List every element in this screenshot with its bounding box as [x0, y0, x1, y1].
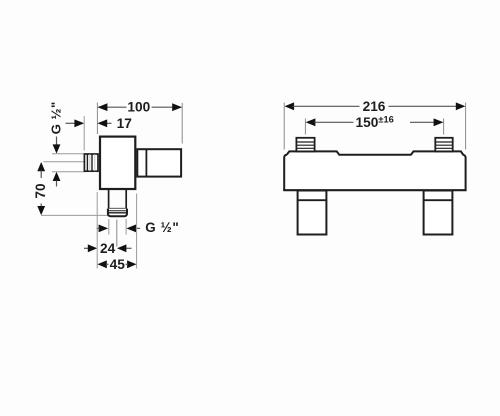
svg-text:216: 216 — [363, 99, 386, 114]
thread hatch lines — [86, 154, 88, 171]
extension line: body right edge — [465, 103, 467, 150]
extension line: body right edge (lower) — [136, 194, 138, 269]
extension line: left reference (lower) — [96, 192, 98, 269]
dimension 100 left arrow — [98, 103, 108, 111]
extension line: thread left face — [83, 116, 85, 151]
svg-text:70: 70 — [33, 183, 48, 199]
spout block (right) — [137, 149, 181, 176]
extension line: body left face reference (top) — [96, 103, 98, 135]
extension line: outlet centerline (below) — [116, 220, 118, 247]
svg-text:G ½": G ½" — [145, 220, 179, 235]
body bottom edge — [283, 189, 466, 191]
G1/2 bottom: left-pointing arrow — [126, 225, 136, 233]
right leg — [424, 191, 453, 235]
dimension 100 line — [98, 106, 126, 108]
dimension 17 right-pointing arrow (tip at thread face) — [74, 119, 84, 127]
dimension 216 line segments — [293, 105, 360, 107]
dimension 150: right-pointing arrow — [410, 121, 435, 123]
svg-text:150±16: 150±16 — [356, 115, 394, 130]
dimension 70 down arrow — [37, 206, 45, 215]
extension line: body left edge — [283, 103, 285, 150]
mixer body (front view) with raised flanges — [284, 151, 465, 190]
extension line: thread bottom — [52, 171, 85, 173]
svg-text:24: 24 — [100, 241, 116, 256]
svg-text:G ½": G ½" — [49, 101, 64, 134]
dimension 216: right-pointing arrow — [456, 102, 466, 110]
dimension 24: left-pointing arrow — [117, 244, 126, 252]
extension line: thread centerline — [44, 161, 85, 163]
extension line: left connector centerline — [304, 119, 306, 135]
mixer body (side view) — [100, 137, 135, 189]
inlet thread block (left, G1/2) — [84, 154, 98, 171]
dimension 100 right arrow — [172, 103, 182, 111]
left leg collar line — [298, 199, 327, 201]
spout collar line — [145, 149, 147, 177]
extension line: spout right end — [181, 103, 183, 144]
extension line: outlet right edge (below) — [125, 219, 127, 235]
leader line down from G1/2 label — [56, 137, 58, 146]
extension line: outlet bottom (horizontal) — [41, 214, 108, 216]
dimension 70 up arrow — [37, 162, 45, 171]
svg-text:45: 45 — [110, 257, 126, 272]
svg-text:17: 17 — [117, 116, 133, 131]
left leg — [298, 191, 327, 235]
outlet thread (bottom, G1/2) — [108, 209, 127, 217]
dimension 216: left-pointing arrow — [285, 102, 295, 110]
up arrow tail — [56, 181, 58, 187]
dimension 17 left-pointing arrow (tip at body face) — [97, 119, 107, 127]
up arrow at thread bottom line — [53, 172, 61, 181]
right top connector thread — [435, 138, 452, 152]
svg-text:100: 100 — [127, 100, 150, 115]
dimension 24: left arrow tail — [84, 247, 90, 249]
extension line: right connector centerline — [443, 119, 445, 135]
right leg collar line — [424, 199, 453, 201]
dimension 150: left-pointing arrow — [306, 118, 316, 126]
dimension 24: right-pointing arrow — [88, 244, 97, 252]
dimension 70 line upper segment — [40, 171, 42, 179]
left top connector thread — [296, 138, 314, 152]
G1/2 bottom: right-pointing arrow — [99, 225, 109, 233]
extension line: thread top — [52, 153, 85, 155]
extension line: outlet left edge (below) — [108, 219, 110, 235]
dimension 45: right-pointing arrow — [127, 260, 136, 268]
dimension 17 tail lines — [66, 122, 76, 124]
dimension 70 line lower segment — [40, 204, 42, 208]
outlet neck below body — [108, 190, 110, 209]
dimension 45: left-pointing arrow — [97, 260, 106, 268]
down arrow at thread top line — [53, 144, 61, 153]
